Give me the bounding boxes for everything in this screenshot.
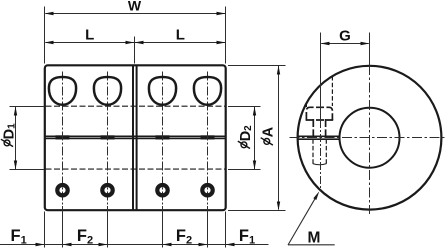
svg-text:W: W: [128, 0, 142, 13]
svg-text:M: M: [307, 229, 320, 246]
svg-text:A: A: [261, 126, 277, 137]
svg-text:L: L: [176, 27, 185, 44]
svg-text:L: L: [85, 27, 94, 44]
svg-text:G: G: [339, 28, 351, 45]
